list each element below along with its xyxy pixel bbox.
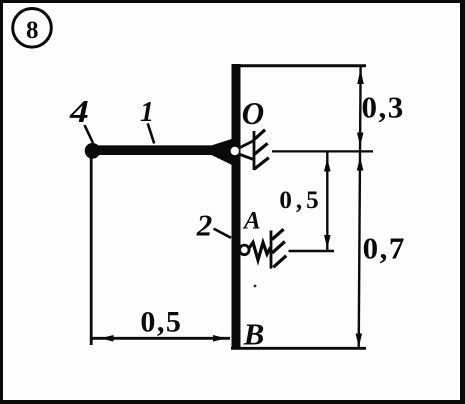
- svg-text:0,3: 0,3: [361, 90, 404, 125]
- A-level extension line: [289, 250, 335, 253]
- leader line to ball 4: [85, 125, 94, 143]
- rod 1: [93, 139, 232, 165]
- svg-text:4: 4: [69, 94, 89, 130]
- bar OB (vertical beam): [232, 64, 241, 349]
- svg-text:0,5: 0,5: [140, 305, 182, 338]
- svg-text:2: 2: [196, 208, 213, 243]
- spring wall support at A: [271, 229, 286, 268]
- dimension line 0,3 / 0,7: [356, 67, 364, 348]
- svg-text:1: 1: [140, 97, 154, 128]
- svg-text:O: O: [242, 96, 264, 132]
- svg-text:0,5: 0,5: [279, 187, 322, 214]
- svg-text:8: 8: [26, 17, 39, 44]
- ball 4: [85, 143, 101, 159]
- B-level extension line: [231, 347, 366, 350]
- svg-text:A: A: [242, 208, 261, 235]
- pivot support at O: [240, 130, 269, 170]
- spring 2: [240, 243, 271, 261]
- problem number badge 8: [13, 9, 52, 48]
- O-level extension line: [272, 150, 373, 152]
- svg-text:B: B: [243, 317, 265, 352]
- leader line to rod 1: [148, 123, 155, 143]
- ink speck: [254, 285, 257, 288]
- dimension line 0,5 (right): [324, 151, 331, 251]
- top extension line: [232, 64, 367, 67]
- pivot pin at O: [231, 147, 239, 155]
- svg-text:0,7: 0,7: [363, 231, 406, 266]
- leader line to node A: [214, 229, 231, 238]
- left extension line from ball 4: [90, 154, 93, 345]
- dimension line 0,5 (bottom): [91, 335, 230, 342]
